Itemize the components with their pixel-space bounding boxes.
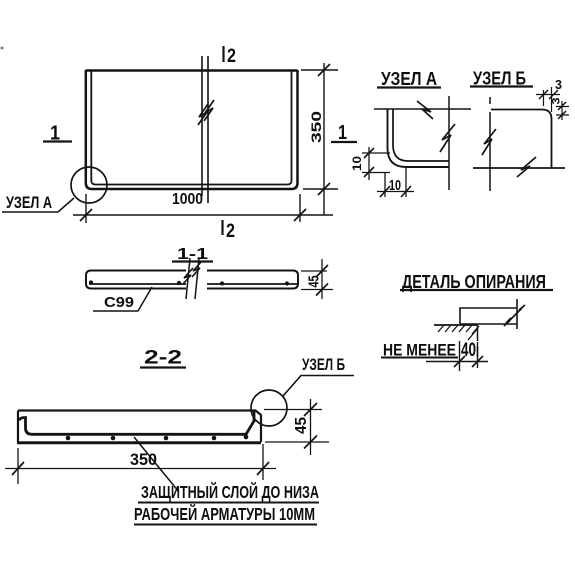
node B detail top surface with chamfer: [491, 110, 552, 169]
node A detail inner corner line: [393, 109, 449, 161]
support detail wall top line: [434, 324, 477, 326]
section 1-1 slab outline right part: [207, 271, 298, 289]
node A detail top break zigzag: [417, 101, 433, 119]
svg-text:10: 10: [389, 177, 401, 194]
plan view: panel inner tray line: [91, 71, 291, 185]
svg-text:2-2: 2-2: [144, 348, 182, 369]
support detail dim 40 ticks: [454, 356, 483, 367]
node B detail bottom line: [473, 167, 565, 169]
plan break zigzag flags: [198, 100, 214, 125]
section mark 2 top tick: [222, 46, 224, 62]
node A detail right break zigzag: [440, 124, 455, 152]
node B detail left break line: [489, 97, 491, 191]
svg-text:ЗАЩИТНЫЙ СЛОЙ ДО НИЗА: ЗАЩИТНЫЙ СЛОЙ ДО НИЗА: [141, 481, 319, 502]
section 1-1 slab outline left part: [86, 271, 186, 289]
svg-text:3: 3: [555, 78, 562, 92]
svg-text:РАБОЧЕЙ АРМАТУРЫ 10ММ: РАБОЧЕЙ АРМАТУРЫ 10ММ: [134, 503, 315, 524]
svg-text:2: 2: [227, 46, 236, 67]
support detail dim 40 extensions: [460, 341, 478, 371]
node B chamfer 3 dim vertical: [556, 101, 569, 120]
svg-text:2: 2: [226, 221, 235, 242]
protective layer leader: [134, 437, 179, 492]
node A detail vertical 10 dim: [362, 147, 390, 180]
svg-text:45: 45: [293, 417, 310, 434]
svg-text:45: 45: [306, 276, 323, 288]
stray scan mark: [1, 47, 4, 50]
section 1-1 dim 45 extensions: [301, 271, 333, 290]
section 1-1 dim 45 ticks: [316, 265, 328, 296]
svg-text:С99: С99: [104, 294, 134, 311]
node A callout circle on plan corner: [71, 167, 107, 203]
dimension 350 extension lines: [301, 70, 338, 189]
section 1-1 mesh line right: [207, 283, 297, 285]
svg-text:3: 3: [551, 98, 563, 105]
support detail break flag: [504, 305, 525, 326]
node A detail outer corner line: [388, 109, 450, 167]
node A leader: [2, 198, 74, 212]
section 2-2 dim 45 line: [310, 399, 312, 455]
section 1-1 mesh line left: [89, 283, 186, 285]
svg-text:УЗЕЛ А: УЗЕЛ А: [381, 69, 437, 89]
node A detail right break line: [448, 96, 450, 190]
node A detail horizontal 10 dim: [377, 168, 414, 197]
svg-text:350: 350: [308, 111, 324, 143]
section 2-2 dim 350 ticks: [12, 462, 269, 475]
dimension 1000 extension lines: [86, 194, 300, 223]
section 1-1 break line right: [195, 258, 199, 299]
wire: plan break line left: [201, 56, 203, 196]
node B callout leader and shelf: [283, 376, 354, 397]
node B callout circle on section 2-2: [251, 390, 287, 426]
section 1-1 break zigzags: [183, 261, 202, 284]
section 1-1 dim 45 line: [321, 259, 323, 299]
section mark 2 bottom tick: [221, 220, 223, 235]
support detail dim 40 line: [426, 361, 488, 363]
section 2-2 slab outline: [17, 411, 261, 443]
svg-text:10: 10: [350, 156, 364, 171]
support detail wall hatching: [438, 325, 479, 340]
dimension 1000 ticks: [80, 209, 306, 221]
node B detail bottom break zigzag: [517, 157, 536, 177]
section 2-2 dim 45 ticks: [304, 403, 317, 449]
svg-text:УЗЕЛ А: УЗЕЛ А: [6, 194, 52, 212]
section 2-2 dim 350 extensions: [18, 444, 263, 484]
dimension 1000 line: [73, 214, 333, 216]
support detail wall edge: [477, 325, 479, 357]
section 2-2 dim 350 line: [5, 468, 276, 470]
wire: plan break line right: [207, 56, 209, 203]
section 1-1 rebar dots: [89, 280, 289, 285]
node B detail left break zigzag: [482, 129, 496, 155]
support detail slab end break line: [516, 299, 518, 329]
svg-text:1000: 1000: [172, 191, 203, 208]
support detail slab rectangle: [460, 308, 517, 324]
svg-text:1: 1: [338, 122, 347, 144]
section 2-2 rebar dots: [66, 435, 249, 441]
section 1-1 break line left: [186, 258, 190, 299]
node A detail top break line: [374, 108, 471, 110]
dimension 350 ticks: [318, 64, 330, 195]
section 2-2 dim 45 extensions: [264, 410, 329, 443]
plan view: panel outer outline: [86, 70, 298, 189]
dimension 350 line: [323, 63, 325, 215]
svg-text:УЗЕЛ Б: УЗЕЛ Б: [302, 355, 345, 374]
section 2-2 mesh with end hooks: [20, 412, 255, 435]
node B chamfer 3 dim horizontal: [536, 87, 560, 112]
